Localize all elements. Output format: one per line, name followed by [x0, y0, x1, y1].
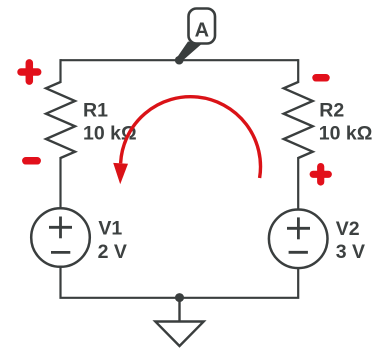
loop current arrowhead — [113, 163, 128, 184]
node A leader pointer — [177, 42, 202, 63]
voltage source V2 — [269, 210, 328, 269]
junction dot node A — [175, 56, 184, 65]
svg-text:3 V: 3 V — [336, 241, 365, 263]
resistor R1 — [46, 82, 75, 158]
voltage source V1 — [31, 208, 90, 267]
polarity minus (red, top of R2) — [316, 74, 326, 82]
wire right vertical upper — [297, 59, 299, 83]
svg-text:V1: V1 — [98, 218, 122, 240]
wire bottom-right — [179, 268, 298, 298]
svg-text:10 kΩ: 10 kΩ — [319, 122, 373, 144]
polarity plus (red, top of R1) — [21, 63, 38, 81]
svg-text:R1: R1 — [83, 99, 108, 121]
loop current arrow (red arc) — [121, 97, 261, 178]
polarity minus (red, bottom of R1) — [26, 157, 37, 165]
wire bottom-left — [61, 267, 181, 298]
junction dot bottom — [175, 293, 184, 302]
wire top horizontal — [61, 59, 299, 61]
svg-text:R2: R2 — [319, 99, 344, 121]
wire left vertical lower — [59, 157, 61, 208]
wire left vertical upper — [59, 59, 61, 83]
ground — [155, 298, 203, 346]
polarity plus (red, bottom of R2) — [313, 167, 328, 182]
svg-text:V2: V2 — [336, 218, 360, 240]
resistor R2 — [284, 82, 313, 158]
node A label box — [189, 9, 216, 44]
wire right vertical lower — [297, 157, 299, 210]
svg-text:A: A — [195, 20, 209, 42]
svg-text:2 V: 2 V — [98, 241, 127, 263]
